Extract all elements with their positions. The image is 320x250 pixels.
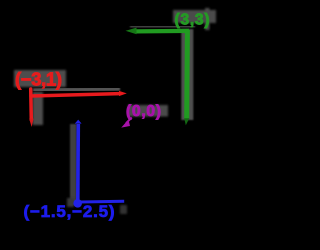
wire: red horizontal leg from (-3,1) toward y-axis [31, 94, 120, 96]
gray smudge below end of blue horizontal wire [120, 205, 127, 214]
arrowhead of magenta origin pointer [121, 120, 130, 128]
svg-text:(−3,1): (−3,1) [15, 69, 62, 90]
gray halo sides of green vertical wire [181, 29, 193, 120]
wire: blue horizontal leg from (-1.5,-2.5) toward y-axis [80, 200, 124, 204]
gray halo right of red vertical wire [33, 92, 44, 125]
wire: magenta pointer shaft to origin [126, 118, 132, 124]
wire: green horizontal leg from (3,3) toward y-axis [136, 29, 189, 34]
wire: green vertical leg from (3,3) toward x-axis [184, 30, 190, 119]
gray halo behind green label [173, 10, 216, 23]
wire: blue vertical leg from (-1.5,-2.5) toward x-axis [76, 124, 80, 201]
wire: red vertical leg from (-3,1) toward x-axis [29, 89, 33, 120]
arrowhead left end of green horizontal leg [126, 28, 137, 35]
gray halo above green horizontal wire [130, 25, 195, 30]
arrowhead bottom of red vertical leg [29, 119, 33, 127]
arrowhead bottom of green vertical leg [184, 118, 189, 125]
gray halo left of blue vertical wire [70, 124, 77, 205]
gray halo behind magenta label [128, 105, 168, 117]
svg-text:(3,3): (3,3) [175, 12, 210, 29]
svg-text:(−1.5,−2.5): (−1.5,−2.5) [24, 202, 115, 221]
gray halo above red horizontal wire [33, 89, 120, 91]
gray halo behind red label [14, 70, 66, 87]
gray smudge near blue dot [67, 198, 74, 207]
node dot at (-1.5,-2.5) [73, 199, 82, 208]
arrowhead right end of red horizontal leg [119, 91, 127, 96]
arrowhead top of blue vertical leg [75, 120, 82, 124]
